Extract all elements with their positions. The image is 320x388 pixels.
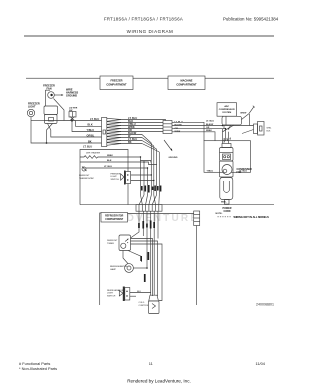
defrost heater R1	[80, 156, 141, 159]
boundary lines group	[26, 78, 274, 204]
label box MACHINE COMPARTMENT	[168, 76, 205, 90]
svg-text:WIRING DIAGRAM: WIRING DIAGRAM	[127, 29, 174, 34]
defrost thermostat	[82, 167, 148, 172]
junction dot at light wire	[46, 142, 48, 144]
svg-text:BLK/W: BLK/W	[206, 124, 214, 126]
BLK blob label	[140, 256, 142, 261]
svg-text:OR: OR	[206, 127, 210, 129]
svg-text:BR/W: BR/W	[241, 112, 248, 114]
footer functional parts note	[19, 361, 57, 371]
svg-text:LT. BLU: LT. BLU	[104, 166, 112, 168]
W/BL label above divider	[221, 201, 227, 203]
svg-text:* Non-Illustrated Parts: * Non-Illustrated Parts	[19, 366, 57, 371]
svg-text:240098801: 240098801	[256, 303, 274, 307]
wires to mid connector	[142, 120, 166, 132]
junction dot lamp	[146, 267, 148, 269]
label box FREEZER COMPARTMENT	[100, 76, 133, 90]
svg-text:LT. BLU: LT. BLU	[206, 121, 214, 123]
defrost limit switch	[242, 106, 255, 126]
svg-text:BK: BK	[128, 141, 132, 144]
junction dots	[222, 125, 230, 130]
svg-text:COMPARTMENT: COMPARTMENT	[106, 82, 127, 86]
lower harness connector block	[136, 205, 162, 212]
vertical wire labels	[138, 221, 155, 229]
BLK label	[107, 160, 112, 162]
svg-text:REFRIGERATOR: REFRIGERATOR	[105, 215, 124, 218]
svg-text:LIGHT: LIGHT	[111, 176, 118, 178]
wire fan diagonal to lid switch	[54, 99, 65, 121]
diagram part number	[256, 303, 274, 307]
wire harness ground label	[66, 89, 79, 98]
svg-text:LIGHT: LIGHT	[107, 293, 114, 295]
svg-text:COMPARTMENT: COMPARTMENT	[176, 82, 197, 86]
svg-text:Y/BLU: Y/BLU	[207, 171, 214, 173]
wire labels right of connector	[128, 117, 137, 144]
freezer light lamp	[27, 109, 34, 116]
svg-text:OR/BL: OR/BL	[87, 134, 95, 137]
wiring diagram body	[27, 85, 274, 314]
cold control label	[139, 302, 150, 307]
svg-text:Publication No: 5995421384: Publication No: 5995421384	[223, 17, 279, 22]
svg-text:CORD: CORD	[223, 210, 230, 213]
junction dots on bundle	[140, 156, 155, 181]
wire stair step	[141, 157, 151, 163]
defrost thermostat label	[79, 175, 94, 180]
svg-text:NOTE:: NOTE:	[216, 213, 223, 215]
wire cross below fan connector	[47, 124, 53, 144]
wire freezer light down and right	[31, 117, 102, 143]
wires diving to lower bundle	[142, 135, 159, 153]
wire BLK	[80, 161, 144, 163]
svg-text:DEFROST: DEFROST	[79, 175, 90, 177]
wires from ADC connector down	[223, 125, 235, 132]
svg-text:BK: BK	[88, 140, 92, 143]
header model numbers	[104, 17, 183, 22]
arrow to wire harness ground	[55, 94, 64, 96]
lid heater switch	[69, 112, 76, 121]
refrigerator lamp	[125, 264, 147, 273]
svg-text:Y/BLU: Y/BLU	[87, 129, 95, 132]
svg-text:W/BK: W/BK	[107, 155, 113, 157]
label box REFRIGERATOR COMPARTMENT	[101, 213, 128, 223]
wall connector on right edge	[194, 211, 200, 226]
svg-text:LT. BLU: LT. BLU	[90, 118, 99, 121]
cold control thermostat S4	[149, 295, 160, 313]
freezer light switch label	[111, 173, 121, 181]
svg-text:WIRING NOT IN ALL MODELS: WIRING NOT IN ALL MODELS	[234, 216, 270, 219]
defrost heater sub box	[80, 150, 128, 205]
svg-text:COMPARTMENT: COMPARTMENT	[105, 218, 124, 221]
note text	[216, 213, 270, 219]
connector fanout wires right	[107, 118, 142, 145]
watermark LEADVENTURE	[100, 213, 199, 224]
wire labels left of connector	[83, 118, 99, 149]
svg-text:Rendered by LeadVenture, Inc.: Rendered by LeadVenture, Inc.	[127, 378, 191, 383]
svg-text:COLD: COLD	[139, 302, 145, 304]
svg-text:MACHINE: MACHINE	[180, 79, 192, 83]
footer rendered by	[127, 378, 191, 383]
wire diagonal to inlet	[242, 130, 254, 134]
labels before junctions	[206, 121, 214, 133]
BR/W label	[241, 112, 248, 114]
svg-text:SWITCH: SWITCH	[107, 295, 116, 297]
power cord plug	[220, 177, 233, 204]
header publication number	[223, 17, 279, 22]
power cord label	[222, 207, 231, 213]
svg-text:BLK: BLK	[88, 124, 93, 127]
defrost timer M1	[119, 235, 131, 251]
note dashed sample wire	[218, 216, 232, 218]
svg-text:GROUND: GROUND	[66, 95, 77, 98]
defrost timer label	[107, 240, 118, 245]
footer date	[256, 361, 266, 366]
freezer fan motor circle	[48, 92, 55, 99]
bundle crossover into block	[139, 195, 159, 205]
svg-text:FREEZER: FREEZER	[111, 173, 121, 175]
refrigerator light switch S3	[119, 287, 150, 302]
svg-text:TIMER: TIMER	[107, 243, 114, 245]
labels on machine box bottom	[207, 170, 248, 172]
LT BLU label	[104, 166, 112, 168]
ground label	[169, 157, 178, 159]
compressor relay and overload	[220, 129, 234, 161]
svg-text:11: 11	[149, 361, 153, 366]
svg-text:OR: OR	[226, 138, 228, 142]
refrigerator light switch label	[107, 289, 124, 298]
defrost heater label	[86, 152, 100, 155]
svg-text:FAN: FAN	[237, 171, 242, 174]
svg-text:DEFROST: DEFROST	[107, 240, 118, 242]
svg-text:LAMP: LAMP	[110, 268, 116, 271]
freezer fan connector stack	[44, 106, 58, 124]
freezer fan motor label	[43, 85, 55, 91]
machine compartment inner box	[204, 141, 251, 173]
svg-text:W/BL: W/BL	[221, 201, 227, 203]
title WIRING DIAGRAM	[127, 29, 174, 34]
svg-text:FAN: FAN	[47, 87, 52, 90]
compartment divider line	[80, 204, 274, 206]
svg-text:REFRIGERATOR: REFRIGERATOR	[107, 289, 124, 292]
bundle wire labels	[141, 185, 161, 193]
relay wire labels	[223, 138, 231, 144]
LT BLU vertical label	[148, 252, 150, 260]
refrigerator compartment enclosure	[100, 213, 197, 305]
svg-text:BLK: BLK	[267, 130, 271, 132]
svg-text:COMPRESSOR: COMPRESSOR	[219, 109, 235, 111]
ground arrow	[164, 140, 172, 151]
wires from mid connector to machine compartment	[172, 122, 254, 140]
freezer fan shroud	[46, 90, 51, 106]
svg-text:BLK: BLK	[137, 291, 142, 293]
refrigerator lamp label	[110, 265, 128, 271]
condenser fan motor	[220, 161, 234, 177]
footer page number	[149, 361, 153, 366]
labels right of mid connector	[175, 121, 183, 133]
svg-text:GROUND: GROUND	[169, 157, 178, 159]
svg-text:11/04: 11/04	[256, 361, 266, 366]
bus wires to connector	[44, 121, 102, 138]
svg-text:LT. BLU: LT. BLU	[83, 146, 92, 149]
freezer wall connector	[102, 118, 107, 147]
svg-text:CONTROL: CONTROL	[139, 305, 150, 307]
junction dot lid switch	[71, 119, 73, 121]
condenser fan label	[237, 168, 253, 174]
cabinet top boundary line	[26, 77, 274, 79]
lid heater switch label	[69, 108, 78, 113]
wires from defrost timer	[123, 239, 162, 301]
W/BK label	[107, 155, 113, 157]
freezer light switch S2	[121, 171, 154, 185]
ADC output connector	[222, 116, 242, 125]
vertical wires below connector block	[131, 211, 159, 295]
svg-text:BLK: BLK	[107, 160, 112, 162]
svg-text:FRT18S6A / FRT18G5A / FRT18S6A: FRT18S6A / FRT18G5A / FRT18S6A	[104, 17, 183, 22]
power inlet connector	[254, 122, 265, 136]
BLK wire label	[137, 291, 142, 293]
svg-text:FREEZER: FREEZER	[110, 79, 122, 83]
Y/BL vertical label	[144, 274, 146, 282]
svg-text:ADC: ADC	[224, 105, 229, 108]
freezer light label	[28, 103, 40, 109]
mid harness connector	[163, 121, 172, 134]
svg-text:SWITCH: SWITCH	[111, 179, 120, 181]
labels right of inlet	[267, 127, 273, 132]
inline nested corners	[144, 162, 157, 165]
svg-text:LIGHT: LIGHT	[28, 105, 36, 108]
svg-text:BLK: BLK	[223, 138, 225, 143]
title rule	[24, 35, 274, 37]
vertical harness bundle	[141, 143, 160, 195]
svg-text:DEF. HEATER: DEF. HEATER	[86, 152, 100, 155]
svg-text:W/BK: W/BK	[206, 130, 212, 132]
svg-text:THERMOSTAT: THERMOSTAT	[79, 177, 94, 180]
adaptive defrost control box U1	[217, 103, 237, 117]
svg-text:SYSTEM: SYSTEM	[222, 112, 231, 114]
